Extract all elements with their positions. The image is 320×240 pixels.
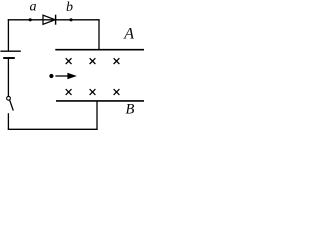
wire: top horizontal from battery corner to right riser — [8, 19, 100, 21]
wire: from battery negative down to switch — [7, 58, 9, 96]
plate A (top deflection plate) — [55, 49, 144, 51]
svg-text:A: A — [123, 25, 134, 42]
svg-text:b: b — [66, 0, 73, 15]
field cross row2 col1 — [66, 89, 72, 95]
field cross row1 col3 — [114, 58, 120, 64]
wire: lower switch lead down to bottom wire — [7, 113, 9, 130]
plate B (bottom deflection plate) — [56, 100, 144, 102]
node a (junction dot) — [29, 18, 32, 21]
node b (junction dot) — [69, 18, 72, 21]
switch S: hinge circle — [7, 96, 11, 100]
wire: riser from bottom wire up to plate B — [96, 101, 98, 130]
field cross row1 col1 — [66, 58, 72, 64]
particle velocity arrow — [55, 73, 76, 79]
particle (charge) dot — [49, 74, 53, 78]
battery: long positive plate — [0, 50, 20, 52]
switch S: open blade — [10, 100, 14, 111]
wire: right riser from top wire down to plate A — [98, 19, 100, 50]
field cross row2 col3 — [114, 89, 120, 95]
wire: bottom horizontal — [8, 128, 98, 130]
wire: left vertical from top wire down to battery — [7, 19, 9, 51]
field cross row2 col2 — [90, 89, 96, 95]
field cross row1 col2 — [90, 58, 96, 64]
diode D (anode left, cathode bar right) — [43, 15, 56, 25]
battery: short negative plate — [3, 57, 15, 59]
svg-text:B: B — [126, 102, 135, 118]
svg-text:a: a — [30, 0, 37, 14]
